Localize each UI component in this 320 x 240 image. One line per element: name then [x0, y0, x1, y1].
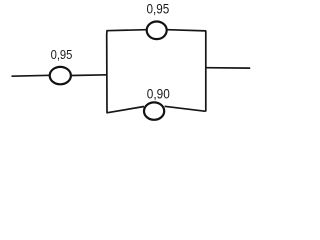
wire top edge left segment: [106, 30, 146, 31]
wire bottom edge left segment: [107, 107, 144, 113]
wire left vertical (node A branch): [106, 31, 108, 114]
wire bottom edge right segment: [165, 106, 206, 111]
element E3 (bottom branch oval): [144, 102, 164, 119]
svg-text:0,95: 0,95: [51, 47, 73, 62]
wire output (right lead): [206, 67, 250, 69]
wire top edge right segment: [167, 30, 206, 31]
svg-text:0,90: 0,90: [147, 87, 170, 102]
wire input (left lead): [12, 74, 51, 77]
wire right vertical (node B branch): [205, 31, 207, 112]
svg-text:0,95: 0,95: [147, 1, 170, 16]
element E2 (top branch oval): [147, 22, 167, 40]
wire E1 to left node: [71, 74, 107, 77]
element E1 (series oval): [50, 67, 71, 84]
